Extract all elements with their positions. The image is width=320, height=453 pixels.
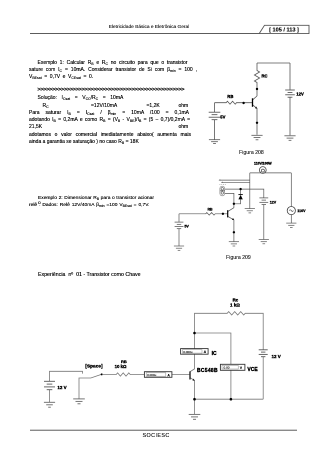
svg-text:5V: 5V: [220, 115, 225, 120]
svg-text:RB: RB: [227, 94, 233, 99]
svg-text:12 V: 12 V: [57, 385, 66, 390]
svg-text:12V: 12V: [270, 200, 277, 204]
svg-text:0.000u: 0.000u: [183, 350, 193, 354]
svg-text:5V: 5V: [184, 224, 189, 228]
svg-text:110V/100W: 110V/100W: [254, 162, 272, 166]
svg-text:[Space]: [Space]: [85, 363, 103, 368]
svg-text:110V: 110V: [297, 209, 306, 213]
svg-text:VCE: VCE: [247, 367, 258, 373]
svg-text:RB: RB: [121, 359, 127, 364]
svg-text:RC: RC: [262, 74, 268, 79]
svg-text:[ 105 / 113 ]: [ 105 / 113 ]: [269, 28, 299, 34]
svg-text:0.00: 0.00: [224, 366, 230, 370]
svg-text:12V: 12V: [296, 92, 304, 97]
svg-text:RB: RB: [208, 207, 213, 211]
svg-text:0.000u: 0.000u: [147, 373, 157, 377]
svg-text:IC: IC: [212, 351, 217, 357]
svg-text:BC548B: BC548B: [197, 368, 218, 374]
svg-text:12 V: 12 V: [272, 354, 281, 359]
svg-text:10 kΩ: 10 kΩ: [115, 364, 127, 369]
svg-text:1 kΩ: 1 kΩ: [230, 303, 240, 308]
